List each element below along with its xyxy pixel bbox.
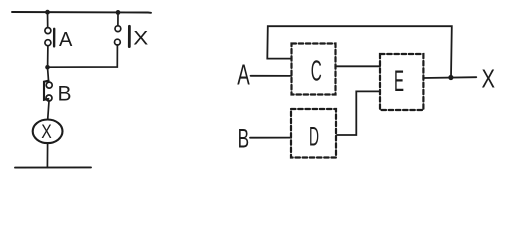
wire block C to block E	[336, 65, 380, 67]
wire right branch drop	[117, 12, 119, 25]
node junction top-right	[116, 10, 121, 15]
wire block D to block E	[337, 91, 380, 135]
node junction top-left	[45, 10, 50, 15]
svg-text:X: X	[41, 122, 52, 143]
svg-text:X: X	[482, 63, 496, 93]
wire feedback loop to block C	[267, 26, 452, 77]
wire junction down to contact B	[48, 67, 49, 82]
wire below contact A	[47, 46, 49, 67]
coil X	[33, 120, 63, 144]
contact A	[45, 28, 54, 47]
block E	[380, 54, 423, 110]
node branch junction	[45, 65, 50, 70]
svg-text:A: A	[237, 59, 250, 91]
wire input B to block D	[250, 137, 291, 139]
block D	[291, 109, 336, 158]
svg-text:B: B	[58, 83, 72, 106]
svg-text:B: B	[238, 124, 250, 154]
wire right branch down and across to junction	[48, 45, 118, 67]
block C	[292, 44, 336, 95]
svg-text:C: C	[311, 55, 322, 87]
wire top rail	[12, 11, 151, 14]
wire contact B to coil	[48, 101, 49, 120]
svg-text:D: D	[309, 122, 319, 152]
wire left branch drop	[47, 12, 49, 27]
svg-text:X: X	[133, 28, 148, 49]
wire bottom rail	[15, 166, 91, 168]
contact B	[44, 81, 52, 101]
wire block E output	[423, 76, 476, 79]
svg-text:E: E	[394, 65, 404, 98]
node output junction	[448, 75, 453, 80]
contact X1	[115, 26, 130, 47]
wire coil to bottom rail	[46, 143, 48, 167]
wire input A to block C	[251, 75, 292, 77]
svg-text:A: A	[59, 29, 73, 51]
